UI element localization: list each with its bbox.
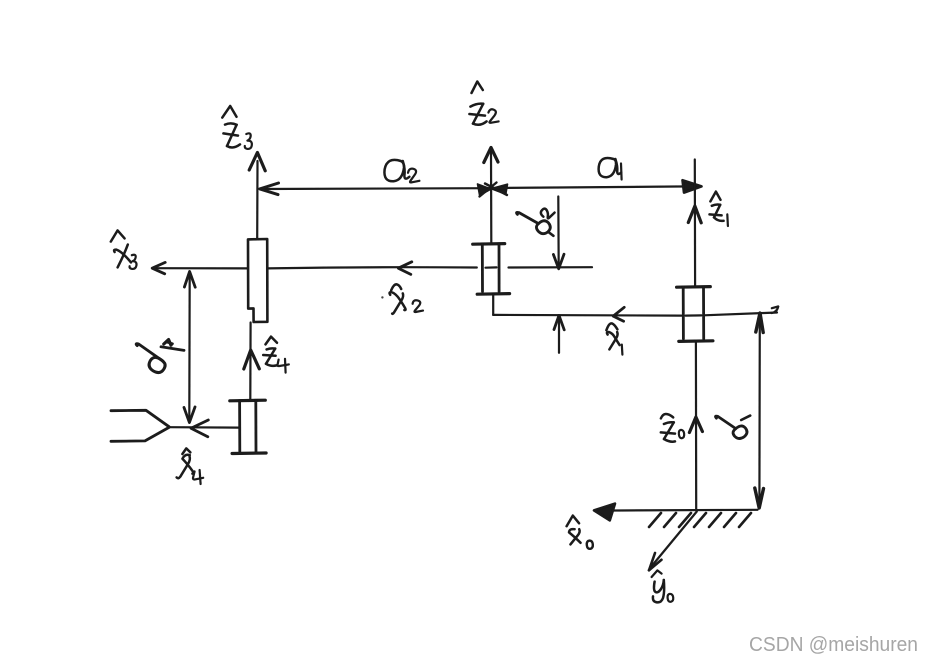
svg-text:CSDN @meishuren: CSDN @meishuren <box>749 634 918 656</box>
